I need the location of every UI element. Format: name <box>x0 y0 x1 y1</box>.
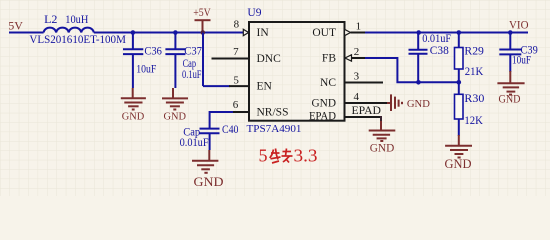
annotation red 5-to-3.3 text <box>259 146 318 166</box>
svg-text:GND: GND <box>312 98 337 110</box>
svg-text:C38: C38 <box>430 45 449 57</box>
wire rail from L2 to U9 pin 8 <box>94 32 243 34</box>
pin 7 DNC stub <box>212 58 250 60</box>
svg-text:5: 5 <box>259 146 268 166</box>
svg-text:IN: IN <box>257 27 270 39</box>
capacitor C37 <box>165 33 185 89</box>
ground sideways at pin 4 <box>387 94 402 111</box>
ground under R30 <box>445 135 472 158</box>
svg-text:GND: GND <box>122 110 145 122</box>
wire +5V down to EN <box>202 33 204 87</box>
wire FB to divider tap <box>365 58 459 82</box>
svg-text:21K: 21K <box>465 66 484 78</box>
svg-text:NR/SS: NR/SS <box>257 107 289 119</box>
pin 5 EN wire <box>203 85 230 87</box>
regulator U9 TPS7A4901 body <box>249 22 345 121</box>
resistor R29 <box>458 33 460 48</box>
svg-text:0.01uF: 0.01uF <box>422 33 451 45</box>
svg-text:OUT: OUT <box>312 27 336 39</box>
pin EPAD wire <box>345 116 382 118</box>
svg-text:10uH: 10uH <box>65 12 88 26</box>
svg-text:0.1uF: 0.1uF <box>182 69 202 81</box>
capacitor C39 <box>499 33 521 73</box>
svg-text:R30: R30 <box>464 93 484 105</box>
svg-text:GND: GND <box>499 94 521 106</box>
svg-text:2: 2 <box>354 46 360 58</box>
ground under C36 <box>121 88 146 110</box>
svg-text:GND: GND <box>407 98 430 110</box>
node junction at +5V stem <box>201 30 206 35</box>
ground under C40 <box>192 150 218 173</box>
svg-text:EPAD: EPAD <box>352 105 382 117</box>
svg-text:5: 5 <box>233 75 239 87</box>
svg-text:GND: GND <box>194 174 224 189</box>
node junction rail/R29 <box>457 30 462 35</box>
capacitor C36 <box>123 33 143 89</box>
svg-text:NC: NC <box>320 77 336 89</box>
svg-text:5V: 5V <box>8 18 23 32</box>
svg-text:GND: GND <box>370 142 395 154</box>
ground under C37 <box>162 88 188 110</box>
pin 8 IN input arrow <box>243 29 248 35</box>
power port +5V <box>195 20 211 32</box>
node junction rail/C38 <box>416 30 421 35</box>
node junction rail/C36 <box>131 30 136 35</box>
svg-text:C40: C40 <box>222 124 239 136</box>
pin 2 FB pin stub <box>352 57 367 59</box>
svg-text:4: 4 <box>354 91 360 103</box>
svg-text:VLS201610ET-100M: VLS201610ET-100M <box>29 32 126 46</box>
svg-text:3: 3 <box>354 71 360 83</box>
svg-text:0.01uF: 0.01uF <box>180 137 209 149</box>
svg-text:3.3: 3.3 <box>294 146 318 166</box>
svg-text:EPAD: EPAD <box>309 110 336 122</box>
svg-text:L2: L2 <box>44 12 57 26</box>
hanzi zhuan strokes <box>270 149 293 164</box>
ground under EPAD <box>369 121 396 141</box>
resistor R30 <box>458 82 460 94</box>
node junction rail/C39 <box>508 30 513 35</box>
wire pin 6 to C40 <box>210 111 233 113</box>
node junction rail/C37 <box>173 30 178 35</box>
ground under C39 <box>497 71 524 95</box>
wire OUT rail to VIO <box>365 32 528 34</box>
svg-text:VIO: VIO <box>509 18 529 32</box>
svg-text:U9: U9 <box>247 7 261 19</box>
inductor L2 <box>44 28 94 33</box>
svg-text:7: 7 <box>233 46 239 58</box>
node junction FB/C38 <box>416 80 421 85</box>
svg-text:EN: EN <box>257 81 273 93</box>
wire 5V input rail (left of L2) <box>9 32 44 34</box>
svg-text:GND: GND <box>164 110 187 122</box>
svg-text:12K: 12K <box>464 115 483 127</box>
svg-text:DNC: DNC <box>257 53 282 65</box>
svg-text:C36: C36 <box>144 45 162 57</box>
capacitor C40 <box>200 111 220 150</box>
pin 6 NR/SS <box>232 111 249 113</box>
svg-text:8: 8 <box>234 19 240 31</box>
svg-text:+5V: +5V <box>193 5 211 19</box>
pin 2 FB input arrow <box>345 55 352 61</box>
svg-text:10uF: 10uF <box>512 54 531 66</box>
svg-text:GND: GND <box>445 156 472 171</box>
node junction divider tap <box>457 80 462 85</box>
svg-text:10uF: 10uF <box>136 64 156 76</box>
wire EPAD drop <box>380 116 382 121</box>
pin 3 NC stub <box>345 82 384 84</box>
pin 4 GND wire <box>345 102 388 104</box>
pin 1 OUT pin stub <box>351 32 367 34</box>
svg-text:TPS7A4901: TPS7A4901 <box>247 123 302 135</box>
svg-text:1: 1 <box>356 21 362 33</box>
svg-text:FB: FB <box>322 53 336 65</box>
pin names of U9 <box>257 27 337 123</box>
pin 1 OUT output arrow <box>345 29 351 35</box>
capacitor C38 <box>409 33 428 83</box>
svg-text:6: 6 <box>233 99 239 111</box>
svg-text:C37: C37 <box>184 46 202 58</box>
svg-text:R29: R29 <box>464 45 484 57</box>
